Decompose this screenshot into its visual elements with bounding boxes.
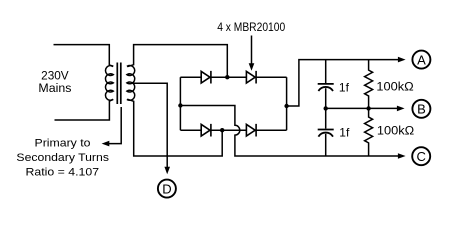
svg-text:1f: 1f: [339, 125, 350, 139]
wire secondary top to bridge: [127, 45, 227, 78]
arrowhead A: [398, 57, 406, 63]
wire secondary centre tap: [131, 83, 167, 167]
capacitor C2 lower lead: [325, 134, 327, 156]
svg-text:D: D: [162, 181, 171, 196]
transformer T1 secondary winding: [127, 66, 135, 101]
terminal circle C: [412, 147, 430, 165]
junction dot positive: [284, 104, 288, 108]
wire top diode row: [180, 76, 286, 78]
wire bottom diode row: [180, 129, 286, 131]
resistor R2: [365, 108, 373, 156]
wire negative node to C rail with hop: [180, 106, 399, 157]
wire secondary bottom to AC2 rail: [127, 99, 222, 156]
arrowhead B: [397, 106, 405, 112]
svg-text:1f: 1f: [339, 81, 350, 95]
svg-text:100kΩ: 100kΩ: [377, 124, 414, 138]
label leader arrow ratio: [107, 107, 121, 144]
arrowhead MBR: [249, 63, 255, 71]
svg-text:C: C: [417, 149, 426, 164]
capacitor C2 plates: [318, 129, 334, 131]
svg-text:Ratio = 4.107: Ratio = 4.107: [26, 167, 100, 179]
svg-text:Secondary Turns: Secondary Turns: [16, 152, 109, 164]
svg-text:Primary to: Primary to: [35, 137, 91, 149]
wire B rail: [326, 107, 397, 109]
junction dot B rail cap: [324, 106, 328, 110]
transformer T1 primary winding: [105, 66, 113, 101]
diode D3: [201, 124, 211, 137]
svg-text:100kΩ: 100kΩ: [376, 79, 413, 93]
wire mains bottom: [55, 99, 114, 120]
svg-text:Mains: Mains: [38, 81, 71, 95]
resistor R1: [365, 60, 373, 109]
junction dot top AC: [225, 75, 229, 79]
svg-text:4 x MBR20100: 4 x MBR20100: [217, 22, 285, 34]
wire mains top: [54, 45, 114, 67]
diode D4: [246, 124, 256, 137]
terminal circle D: [158, 180, 176, 198]
arrowhead C: [398, 153, 406, 159]
junction dot B rail res: [366, 106, 370, 110]
terminal circle B: [412, 100, 430, 118]
capacitor C1 lower lead: [325, 88, 327, 108]
capacitor C1 lead: [325, 60, 327, 83]
capacitor C1 plates: [318, 83, 334, 85]
wire bridge right vertical: [286, 77, 288, 130]
wire bridge left vertical: [179, 77, 181, 130]
arrowhead ratio: [102, 141, 110, 147]
svg-text:A: A: [417, 52, 426, 67]
capacitor C2 lead: [325, 108, 327, 128]
junction dot bottom AC: [220, 128, 224, 132]
arrowhead D: [164, 167, 170, 175]
junction dot negative: [178, 103, 182, 107]
diode D1: [201, 71, 211, 84]
terminal circle A: [412, 51, 430, 69]
svg-text:B: B: [417, 102, 426, 117]
diode D2: [246, 71, 256, 84]
transformer T1 core: [117, 63, 121, 105]
label leader arrow MBR: [251, 36, 253, 65]
wire positive node to A rail: [287, 60, 399, 106]
